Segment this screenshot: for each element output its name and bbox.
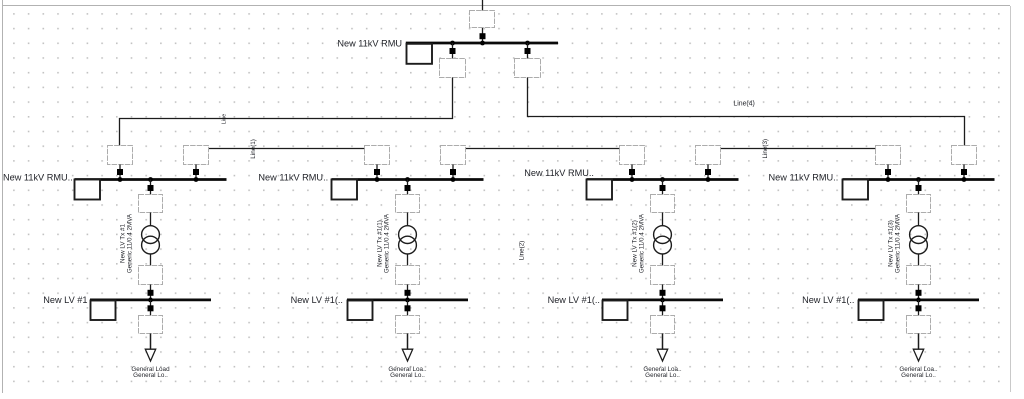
switch SW1l (load feeder, closed) bbox=[148, 300, 154, 316]
svg-text:Generic 11/0.4 2MVA: Generic 11/0.4 2MVA bbox=[639, 213, 646, 273]
node: main bus junctions bbox=[450, 41, 530, 46]
transformer T2 (2-winding) bbox=[399, 213, 417, 266]
svg-text:New 11kV RMU..: New 11kV RMU.. bbox=[769, 172, 839, 182]
svg-text:New LV #1(..: New LV #1(.. bbox=[291, 295, 343, 305]
svg-text:Generic 11/0.4 2MVA: Generic 11/0.4 2MVA bbox=[895, 213, 902, 273]
fuse F4b (right, outgoing) bbox=[952, 146, 977, 165]
bus LV2 New LV #1 bbox=[347, 299, 468, 302]
fuse F2l (load) bbox=[396, 316, 420, 334]
switch SW0 (closed) bbox=[480, 33, 486, 39]
switch SW1s (LV incomer, closed) bbox=[148, 285, 154, 300]
svg-text:New LV #1(..: New LV #1(.. bbox=[548, 295, 600, 305]
label: load 4 bbox=[899, 366, 937, 379]
svg-text:General Lo..: General Lo.. bbox=[133, 372, 168, 379]
fuse F1s (transformer LV) bbox=[139, 266, 163, 285]
label: Line(1) bbox=[250, 139, 257, 159]
label: Line (feeder A) bbox=[222, 114, 228, 125]
svg-text:Line(1): Line(1) bbox=[250, 139, 257, 159]
svg-text:New LV #1(..: New LV #1(.. bbox=[802, 295, 854, 305]
label: Line(2) bbox=[519, 241, 526, 261]
switch SW3b (closed) bbox=[705, 165, 711, 180]
switch SW1t (transformer feeder, closed) bbox=[148, 180, 154, 195]
switch SW4b (closed) bbox=[961, 165, 967, 180]
svg-text:New 11kV RMU..: New 11kV RMU.. bbox=[258, 172, 328, 182]
switch SW2s (LV incomer, closed) bbox=[405, 285, 411, 300]
label: bus New 11kV RMU (3) bbox=[524, 168, 594, 178]
wire: Line(3) RMU3-RMU4 bbox=[721, 148, 876, 150]
fuse F1 (feeder A) bbox=[440, 59, 466, 78]
svg-text:General Lo..: General Lo.. bbox=[645, 372, 680, 379]
fuse F3l (load) bbox=[651, 316, 675, 334]
LV enclosure box 1 bbox=[91, 301, 116, 321]
RMU enclosure box 3 bbox=[587, 180, 613, 200]
utility incoming wire bbox=[482, 0, 484, 43]
wire: Line(1) RMU1-RMU2 bbox=[208, 148, 365, 150]
fuse F1l (load) bbox=[139, 316, 163, 334]
LV enclosure box 2 bbox=[348, 301, 373, 321]
fuse F3b (right, outgoing) bbox=[696, 146, 721, 165]
fuse F3t (transformer HV) bbox=[651, 195, 675, 213]
wire: feeder A to RMU1 bbox=[120, 78, 453, 146]
label: New 11kV RMU bbox=[337, 39, 402, 49]
node: bus B2 junctions bbox=[375, 177, 456, 182]
label: New LV #1 bbox=[43, 295, 87, 305]
switch SW3a (closed) bbox=[629, 165, 635, 180]
svg-text:General Lo..: General Lo.. bbox=[390, 372, 425, 379]
fuse F4a (left, incoming) bbox=[876, 146, 901, 165]
bus B1 New 11kV RMU bbox=[75, 178, 227, 181]
node: bus LV2 junction bbox=[405, 298, 410, 303]
fuse F0 (incoming isolator) bbox=[470, 11, 495, 28]
svg-text:General Lo..: General Lo.. bbox=[901, 372, 936, 379]
fuse F1b (right, outgoing) bbox=[184, 146, 209, 165]
switch SW1a (closed) bbox=[117, 165, 123, 180]
fuse F3s (transformer LV) bbox=[651, 266, 675, 285]
switch SW1 (feeder A, closed) bbox=[450, 43, 456, 59]
load LD3 General Load (arrow) bbox=[657, 334, 667, 362]
label: load 1 bbox=[131, 366, 170, 379]
bus B3 New 11kV RMU bbox=[587, 178, 739, 181]
svg-text:New LV Tx #1(1): New LV Tx #1(1) bbox=[377, 220, 384, 267]
label: load 2 bbox=[388, 366, 426, 379]
bus LV4 New LV #1 bbox=[858, 299, 979, 302]
wire: Line(2) RMU2-RMU3 bbox=[465, 148, 620, 150]
load LD2 General Load (arrow) bbox=[402, 334, 412, 362]
node: bus LV1 junction bbox=[148, 298, 153, 303]
fuse F1a (left, incoming) bbox=[108, 146, 133, 165]
RMU enclosure box 4 bbox=[843, 180, 869, 200]
fuse F1t (transformer HV) bbox=[139, 195, 163, 213]
switch SW2t (transformer feeder, closed) bbox=[405, 180, 411, 195]
node: bus B3 junctions bbox=[630, 177, 711, 182]
label: New LV Tx #1(2) Generic 11/0.4 2MVA bbox=[632, 213, 646, 273]
transformer T3 (2-winding) bbox=[654, 213, 672, 266]
bus LV1 New LV #1 bbox=[90, 299, 211, 302]
switch SW2 (feeder B, closed) bbox=[525, 43, 531, 59]
switch SW2b (closed) bbox=[450, 165, 456, 180]
svg-text:New LV Tx #1(2): New LV Tx #1(2) bbox=[632, 220, 639, 267]
fuse F4s (transformer LV) bbox=[907, 266, 931, 285]
svg-text:New LV Tx #1(3): New LV Tx #1(3) bbox=[888, 220, 895, 267]
svg-text:New 11kV RMU: New 11kV RMU bbox=[337, 39, 402, 49]
bus B2 New 11kV RMU bbox=[332, 178, 484, 181]
node: bus LV4 junction bbox=[916, 298, 921, 303]
switch SW4t (transformer feeder, closed) bbox=[916, 180, 922, 195]
switch SW3s (LV incomer, closed) bbox=[660, 285, 666, 300]
node: bus LV3 junction bbox=[660, 298, 665, 303]
node: bus B1 junctions bbox=[118, 177, 199, 182]
RMU enclosure box 1 bbox=[75, 180, 101, 200]
label: Line(4) bbox=[733, 101, 754, 108]
label: New LV #1(.. bbox=[548, 295, 600, 305]
switch SW4l (load feeder, closed) bbox=[916, 300, 922, 316]
fuse F2s (transformer LV) bbox=[396, 266, 420, 285]
svg-text:Line: Line bbox=[222, 114, 228, 125]
node: bus B4 junctions bbox=[886, 177, 967, 182]
label: bus New 11kV RMU (1) bbox=[3, 172, 75, 182]
switch SW2a (closed) bbox=[374, 165, 380, 180]
LV enclosure box 3 bbox=[603, 301, 628, 321]
fuse F2t (transformer HV) bbox=[396, 195, 420, 213]
label: New LV Tx #1(3) Generic 11/0.4 2MVA bbox=[888, 213, 902, 273]
fuse F2 (feeder B) bbox=[515, 59, 541, 78]
label: bus New 11kV RMU (2) bbox=[258, 172, 328, 182]
bus B4 New 11kV RMU bbox=[843, 178, 995, 181]
svg-text:Generic 11/0.4 2MVA: Generic 11/0.4 2MVA bbox=[127, 213, 134, 273]
LV enclosure box 4 bbox=[859, 301, 884, 321]
svg-text:Line(4): Line(4) bbox=[733, 101, 754, 108]
svg-text:Line(3): Line(3) bbox=[762, 139, 769, 159]
fuse F4t (transformer HV) bbox=[907, 195, 931, 213]
transformer T1 (2-winding) bbox=[142, 213, 160, 266]
switch SW3l (load feeder, closed) bbox=[660, 300, 666, 316]
switch SW3t (transformer feeder, closed) bbox=[660, 180, 666, 195]
label: New LV Tx #1(1) Generic 11/0.4 2MVA bbox=[377, 213, 391, 273]
svg-text:Generic 11/0.4 2MVA: Generic 11/0.4 2MVA bbox=[384, 213, 391, 273]
label: New LV #1(.. bbox=[802, 295, 854, 305]
label: bus New 11kV RMU (4) bbox=[769, 172, 839, 182]
switch SW2l (load feeder, closed) bbox=[405, 300, 411, 316]
load LD4 General Load (arrow) bbox=[913, 334, 923, 362]
label: New LV Tx #1 Generic 11/0.4 2MVA bbox=[120, 213, 134, 273]
switch SW4s (LV incomer, closed) bbox=[916, 285, 922, 300]
fuse F2a (left, incoming) bbox=[365, 146, 390, 165]
RMU enclosure box 2 bbox=[332, 180, 358, 200]
fuse F4l (load) bbox=[907, 316, 931, 334]
svg-text:New LV #1: New LV #1 bbox=[43, 295, 87, 305]
svg-text:New 11kV RMU..: New 11kV RMU.. bbox=[524, 168, 594, 178]
switch SW4a (closed) bbox=[885, 165, 891, 180]
load LD1 General Load (arrow) bbox=[145, 334, 155, 362]
wire: Line(4) feeder B to RMU4 bbox=[528, 78, 965, 146]
label: Line(3) bbox=[762, 139, 769, 159]
bus LV3 New LV #1 bbox=[602, 299, 723, 302]
svg-text:New 11kV RMU...: New 11kV RMU... bbox=[3, 172, 75, 182]
RMU enclosure box (main) bbox=[407, 44, 433, 64]
transformer T4 (2-winding) bbox=[910, 213, 928, 266]
svg-text:Line(2): Line(2) bbox=[519, 241, 526, 261]
fuse F3a (left, incoming) bbox=[620, 146, 645, 165]
bus main New 11kV RMU bbox=[406, 42, 558, 45]
fuse F2b (right, outgoing) bbox=[441, 146, 466, 165]
label: load 3 bbox=[643, 366, 681, 379]
label: New LV #1(.. bbox=[291, 295, 343, 305]
svg-text:New LV Tx #1: New LV Tx #1 bbox=[120, 224, 127, 263]
switch SW1b (closed) bbox=[193, 165, 199, 180]
